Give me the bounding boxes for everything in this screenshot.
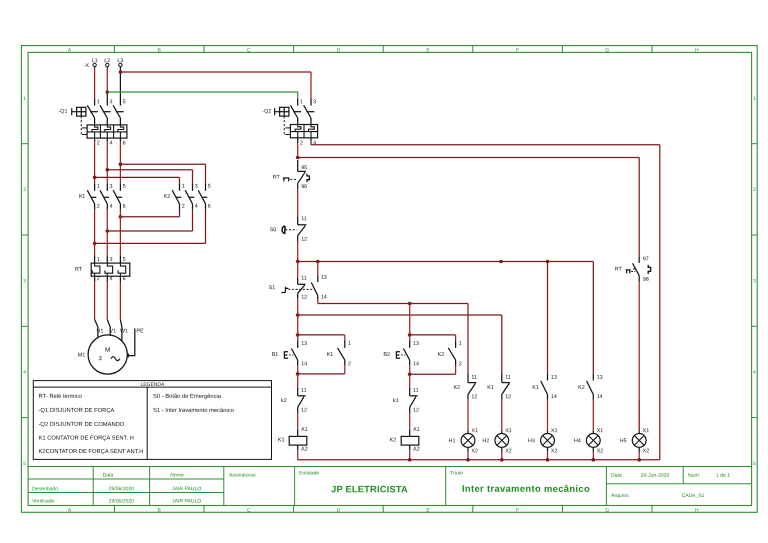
svg-text:2: 2 <box>97 204 100 210</box>
motor M1 body <box>88 335 127 374</box>
wire K1 aux bottom <box>344 365 346 374</box>
thermal relay RT elements <box>92 263 125 276</box>
svg-text:Arquivo:: Arquivo: <box>611 493 630 499</box>
border column letters bottom <box>68 507 699 513</box>
wire right rail down <box>659 145 661 460</box>
wire K2 aux bottom <box>455 365 457 374</box>
svg-text:2: 2 <box>97 276 100 282</box>
wire S1-12 node to H2 branch <box>298 314 502 316</box>
svg-text:12: 12 <box>471 394 477 400</box>
wire S0 to S1 <box>297 241 299 262</box>
wire K1 aux branch top <box>298 334 345 336</box>
wire Q1 pin4 to K1 pin3 <box>106 138 108 142</box>
pushbutton B1 (NO, pins 13-14) <box>297 335 299 341</box>
wire Q2 pin4 to right rail <box>310 138 312 142</box>
contactor k1 interlock contact 11-12 (NC) <box>409 374 411 387</box>
thermal relay RT box <box>91 263 130 276</box>
svg-text:2: 2 <box>753 187 756 193</box>
svg-text:1: 1 <box>300 99 303 105</box>
svg-text:A2: A2 <box>413 447 420 453</box>
svg-text:1: 1 <box>459 341 462 347</box>
svg-text:-Q1 DISJUNTOR DE FORÇA: -Q1 DISJUNTOR DE FORÇA <box>38 407 114 414</box>
wire Q1 pin2 to K1 pin1 <box>94 138 96 142</box>
svg-text:D: D <box>337 47 341 53</box>
contactor k2 interlock contact 11-12 (NC) <box>297 374 299 387</box>
node crossover T1 <box>93 242 97 246</box>
contactor K2 aux contact 1-2 (seal-in) <box>455 340 457 348</box>
svg-text:4: 4 <box>313 140 316 146</box>
svg-text:5: 5 <box>753 461 756 467</box>
node control feed <box>296 156 300 160</box>
wire L3 to Q2 pole 3 <box>120 71 311 73</box>
svg-text:13: 13 <box>551 375 557 381</box>
wire K2 pin6 crossover to T1 <box>205 210 207 244</box>
node phase T2 tap <box>106 168 110 172</box>
node S1-12 output <box>296 313 300 317</box>
contactor K2 contact 11-12 above H1 <box>467 374 469 383</box>
node phase T3 tap <box>119 162 123 166</box>
contactor K1 aux contact 1-2 (seal-in) <box>344 340 346 348</box>
svg-text:Assinaturas: Assinaturas <box>229 473 256 479</box>
svg-text:3: 3 <box>195 184 198 190</box>
node H2 spare tap <box>499 260 503 264</box>
contactor K2 contact 13-14 above H4 <box>592 374 594 381</box>
lamp H5 <box>638 400 640 431</box>
svg-text:4: 4 <box>109 140 112 146</box>
wire k2 to K1 coil <box>297 413 299 430</box>
wire RT98 to H5 <box>638 282 640 431</box>
svg-text:K2CONTATOR DE FORÇA SENT ANT.H: K2CONTATOR DE FORÇA SENT ANT.H <box>38 448 143 455</box>
wire K2 aux branch top <box>410 334 456 336</box>
svg-text:3: 3 <box>109 257 112 263</box>
svg-text:K1: K1 <box>487 385 494 391</box>
legend box <box>33 381 271 460</box>
svg-text:K2: K2 <box>454 385 461 391</box>
motor M1 PE conductor <box>127 329 134 356</box>
wire H3 branch down <box>547 262 549 374</box>
wire K1 pin4 to RT pin3 <box>106 210 108 256</box>
svg-text:4: 4 <box>23 370 26 376</box>
svg-text:1: 1 <box>97 257 100 263</box>
border column ticks bottom <box>114 506 652 513</box>
svg-text:11: 11 <box>301 388 307 394</box>
wire phase T1 to K2 pin1 <box>95 176 180 178</box>
node H5 rail <box>637 458 641 462</box>
svg-text:Data: Data <box>611 473 622 479</box>
svg-text:29/06/2020: 29/06/2020 <box>109 486 135 492</box>
svg-text:K1: K1 <box>327 352 334 358</box>
wire L1 to Q1 pole 1 <box>94 67 96 69</box>
pushbutton S0 (NC, pins 11-12) <box>297 216 299 225</box>
wire RT pin6 to motor W1 <box>119 276 121 281</box>
wire B1 bottom <box>297 365 299 374</box>
selector switch S1 actuator <box>281 287 288 293</box>
svg-text:RT- Relé termico: RT- Relé termico <box>38 393 81 400</box>
svg-text:K2: K2 <box>164 194 171 200</box>
wire RT pin4 to motor V1 <box>106 276 108 281</box>
wire K1 coil to rail <box>297 450 299 460</box>
svg-text:14: 14 <box>551 394 557 400</box>
svg-text:Entidade: Entidade <box>299 471 319 477</box>
svg-text:2: 2 <box>182 204 185 210</box>
svg-text:X1: X1 <box>597 428 604 434</box>
svg-text:13: 13 <box>413 341 419 347</box>
svg-text:H3: H3 <box>528 438 535 444</box>
svg-text:97: 97 <box>643 256 649 262</box>
wire K2 pin2 crossover to T3 <box>179 210 181 217</box>
wire node row to H4 branch <box>298 261 594 263</box>
svg-text:11: 11 <box>471 375 477 381</box>
svg-text:Nome: Nome <box>170 472 184 478</box>
svg-text:C: C <box>247 47 251 53</box>
svg-text:1: 1 <box>348 341 351 347</box>
svg-text:H: H <box>695 507 699 513</box>
svg-text:11: 11 <box>505 375 511 381</box>
svg-text:5: 5 <box>208 184 211 190</box>
svg-text:RT: RT <box>615 267 623 273</box>
svg-text:1: 1 <box>753 96 756 102</box>
wire B2 branch down <box>409 304 411 335</box>
svg-text:U1: U1 <box>96 328 103 334</box>
svg-text:1: 1 <box>23 96 26 102</box>
svg-text:12: 12 <box>505 394 511 400</box>
node S1-13 tap <box>316 260 320 264</box>
circuit breaker Q2 actuator box <box>280 107 289 116</box>
svg-text:5: 5 <box>23 461 26 467</box>
wire RT97 branch down <box>638 158 640 257</box>
svg-text:5: 5 <box>123 99 126 105</box>
contactor K1 contact 13-14 above H3 <box>547 374 549 381</box>
svg-text:F: F <box>516 507 519 513</box>
svg-text:3: 3 <box>109 99 112 105</box>
border frame inner <box>28 52 752 505</box>
wire Q2 pin2 to control rail <box>297 138 299 143</box>
wire control feed to RT97 branch <box>298 157 640 159</box>
svg-text:4: 4 <box>195 204 198 210</box>
svg-text:12: 12 <box>301 295 307 301</box>
selector switch S1 contact 11-12 <box>297 262 299 279</box>
thermal relay contact RT 97-98 <box>638 257 640 263</box>
svg-text:2: 2 <box>23 187 26 193</box>
wire K1 pin2 to RT pin1 <box>94 210 96 256</box>
svg-text:K1: K1 <box>79 194 86 200</box>
svg-text:K1: K1 <box>532 385 539 391</box>
svg-text:14: 14 <box>301 361 307 367</box>
svg-text:3: 3 <box>753 278 756 284</box>
svg-text:11: 11 <box>413 388 419 394</box>
svg-text:A1: A1 <box>413 427 420 433</box>
border column letters top <box>68 47 699 53</box>
wire phase T2 to K2 pin3 <box>107 169 192 171</box>
svg-text:RT: RT <box>75 267 83 273</box>
svg-text:96: 96 <box>301 184 307 190</box>
wire S1-14 to B2 row <box>317 300 319 304</box>
svg-text:-Q1: -Q1 <box>58 109 67 115</box>
svg-text:A1: A1 <box>301 427 308 433</box>
wire Q1 pin6 to K1 pin5 <box>119 138 121 142</box>
svg-text:12: 12 <box>413 408 419 414</box>
svg-text:B1: B1 <box>272 352 279 358</box>
wire bottom rail <box>298 459 660 461</box>
svg-text:CADe_S1: CADe_S1 <box>682 493 705 499</box>
svg-text:6: 6 <box>208 204 211 210</box>
border row numbers right <box>753 96 756 467</box>
circuit breaker Q1 thermal box <box>87 125 127 138</box>
node B2 bottom <box>408 373 412 377</box>
svg-text:-Q2 DISJUNTOR DE COMANDO: -Q2 DISJUNTOR DE COMANDO <box>38 421 124 428</box>
svg-text:D: D <box>337 507 341 513</box>
svg-text:JAIR PAULO: JAIR PAULO <box>172 498 201 504</box>
svg-text:JAIR PAULO: JAIR PAULO <box>172 486 201 492</box>
svg-text:1: 1 <box>97 99 100 105</box>
wire k1 to K2 coil <box>409 413 411 430</box>
svg-text:4: 4 <box>109 204 112 210</box>
node K2 coil rail <box>408 458 412 462</box>
node B1 top <box>296 333 300 337</box>
node H2 rail <box>500 458 504 462</box>
wire S1-12 to branch node <box>297 299 299 316</box>
svg-text:11: 11 <box>301 216 307 222</box>
circuit breaker Q2 thermal box <box>290 125 317 138</box>
svg-text:1: 1 <box>182 184 185 190</box>
svg-text:S0 - Botão de Emergência: S0 - Botão de Emergência <box>153 393 222 400</box>
wire phase T3 to K2 pin5 <box>120 163 205 165</box>
svg-text:29/06/2020: 29/06/2020 <box>109 498 135 504</box>
node S0 output <box>296 260 300 264</box>
node B2 top <box>408 333 412 337</box>
svg-text:K2: K2 <box>578 385 585 391</box>
svg-text:3: 3 <box>23 278 26 284</box>
border row numbers left <box>23 96 26 467</box>
wire L3 to Q1 pole 5 <box>119 67 121 106</box>
svg-text:LEGENDA: LEGENDA <box>140 382 165 388</box>
svg-text:X2: X2 <box>551 448 558 454</box>
title block grid <box>28 467 752 506</box>
svg-text:29-Jun-2020: 29-Jun-2020 <box>641 473 670 479</box>
svg-text:X2: X2 <box>597 448 604 454</box>
svg-text:K2: K2 <box>438 352 445 358</box>
svg-text:X1: X1 <box>551 428 558 434</box>
svg-text:JP ELETRICISTA: JP ELETRICISTA <box>331 484 408 494</box>
lamp H2 <box>501 400 503 431</box>
node phase T1 tap <box>93 176 97 180</box>
svg-text:X1: X1 <box>505 428 512 434</box>
node L2 tap <box>106 90 110 94</box>
wire B1 node down <box>297 315 299 335</box>
svg-text:98: 98 <box>643 277 649 283</box>
circuit breaker Q1 actuator dashed link <box>80 116 82 135</box>
circuit breaker Q1 thermal elements <box>92 125 124 138</box>
wire K2 pin4 crossover to T2 <box>192 210 194 231</box>
node H1 rail <box>466 458 470 462</box>
wire L2 to Q2 pole 1 (green) <box>107 91 297 93</box>
svg-text:X2: X2 <box>471 448 478 454</box>
svg-text:PE: PE <box>136 328 144 334</box>
contactor K1 contact 11-12 above H2 <box>501 374 503 383</box>
lamp H1 <box>467 400 469 431</box>
node H3 rail <box>546 458 550 462</box>
svg-text:6: 6 <box>123 140 126 146</box>
node crossover T2 <box>106 229 110 233</box>
svg-text:3: 3 <box>313 99 316 105</box>
svg-text:G: G <box>605 507 609 513</box>
svg-text:13: 13 <box>321 275 327 281</box>
selector switch S1 contact 13-14 <box>317 262 319 276</box>
svg-text:14: 14 <box>413 361 419 367</box>
svg-text:4: 4 <box>109 276 112 282</box>
svg-text:X1: X1 <box>643 428 650 434</box>
svg-text:K1 CONTATOR DE FORÇA SENT. H: K1 CONTATOR DE FORÇA SENT. H <box>38 435 133 442</box>
svg-text:S0: S0 <box>270 227 277 233</box>
svg-text:95: 95 <box>301 165 307 171</box>
svg-text:H: H <box>695 47 699 53</box>
svg-text:14: 14 <box>321 295 327 301</box>
svg-text:Num:: Num: <box>688 473 700 479</box>
svg-text:5: 5 <box>123 257 126 263</box>
wire RT pin2 to motor U1 <box>94 276 96 281</box>
svg-text:2: 2 <box>459 361 462 367</box>
svg-text:H1: H1 <box>449 438 456 444</box>
border row ticks right <box>752 144 758 418</box>
svg-text:A2: A2 <box>301 447 308 453</box>
wire H1 branch down <box>467 304 469 374</box>
node H4 rail <box>592 458 596 462</box>
svg-text:X2: X2 <box>505 448 512 454</box>
svg-text:5: 5 <box>123 184 126 190</box>
svg-text:12: 12 <box>301 408 307 414</box>
border row ticks left <box>21 144 28 418</box>
svg-text:RT: RT <box>273 175 281 181</box>
wire H4 branch down <box>592 262 594 374</box>
svg-text:X1: X1 <box>471 428 478 434</box>
svg-text:B2: B2 <box>383 352 390 358</box>
svg-text:M1: M1 <box>78 352 86 358</box>
svg-text:C: C <box>247 507 251 513</box>
svg-text:W1: W1 <box>120 328 128 334</box>
svg-text:11: 11 <box>301 276 307 282</box>
lamp H3 <box>547 400 549 431</box>
wire H2 branch down <box>501 315 503 374</box>
svg-text:M: M <box>105 347 110 354</box>
svg-text:Data: Data <box>103 472 114 478</box>
svg-text:k1: k1 <box>393 398 399 404</box>
svg-text:S1 - Inter travamento mecânico: S1 - Inter travamento mecânico <box>153 407 234 414</box>
svg-text:H4: H4 <box>574 438 581 444</box>
svg-text:Inter travamento mecânico: Inter travamento mecânico <box>462 483 590 494</box>
wire RT96 to S0 <box>297 189 299 217</box>
svg-text:k2: k2 <box>281 398 287 404</box>
svg-text:6: 6 <box>123 276 126 282</box>
svg-text:H2: H2 <box>482 438 489 444</box>
svg-text:Verificado: Verificado <box>32 499 55 505</box>
node crossover T3 <box>119 215 123 219</box>
wire K2 coil to rail <box>409 450 411 460</box>
svg-text:1 de 1: 1 de 1 <box>716 473 730 479</box>
wire B2 bottom <box>409 365 411 374</box>
node B2 branch tap <box>408 302 412 306</box>
pushbutton B2 (NO, pins 13-14) <box>409 335 411 341</box>
svg-text:G: G <box>605 47 609 53</box>
svg-text:X2: X2 <box>643 448 650 454</box>
node B1 bottom <box>296 372 300 376</box>
wire K1 pin6 to RT pin5 <box>119 210 121 256</box>
svg-text:13: 13 <box>301 341 307 347</box>
svg-text:12: 12 <box>301 237 307 243</box>
svg-text:14: 14 <box>597 394 603 400</box>
svg-text:Desenhado: Desenhado <box>32 486 58 492</box>
svg-text:13: 13 <box>597 375 603 381</box>
svg-text:6: 6 <box>123 204 126 210</box>
svg-text:2: 2 <box>97 140 100 146</box>
circuit breaker Q2 actuator dashed link <box>283 116 285 135</box>
lamp H4 <box>592 400 594 431</box>
svg-text:K2: K2 <box>390 437 397 443</box>
svg-text:K1: K1 <box>278 437 285 443</box>
svg-text:2: 2 <box>300 140 303 146</box>
border column ticks top <box>114 46 652 53</box>
circuit breaker Q1 actuator box <box>77 107 86 116</box>
svg-text:F: F <box>516 47 519 53</box>
svg-text:-X: -X <box>84 63 90 69</box>
thermal relay contact RT 95-96 <box>297 160 299 171</box>
svg-text:4: 4 <box>753 370 756 376</box>
svg-text:Título: Título <box>450 471 463 477</box>
node L3 tap <box>119 70 123 74</box>
circuit breaker Q2 thermal elements <box>295 125 314 138</box>
svg-text:S1: S1 <box>269 285 276 291</box>
svg-text:2: 2 <box>348 361 351 367</box>
node H3 tap <box>546 260 550 264</box>
svg-text:V1: V1 <box>110 328 117 334</box>
svg-text:H5: H5 <box>620 438 627 444</box>
svg-text:3: 3 <box>109 184 112 190</box>
svg-text:1: 1 <box>97 184 100 190</box>
wire L2 to Q1 pole 3 <box>106 67 108 69</box>
svg-text:-Q2: -Q2 <box>262 109 271 115</box>
